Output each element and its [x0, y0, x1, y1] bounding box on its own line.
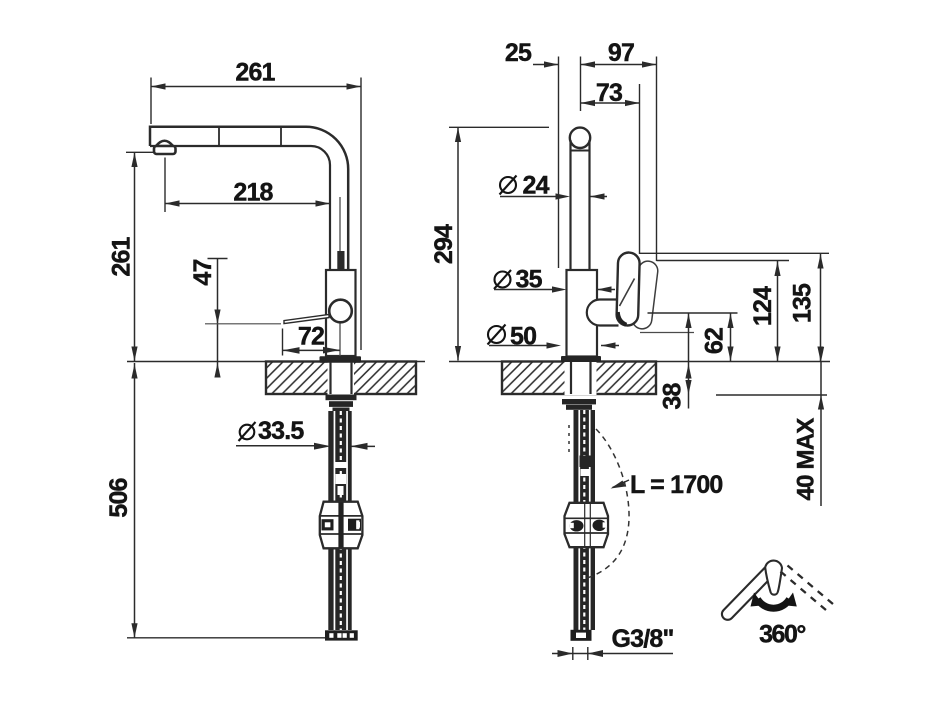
svg-text:73: 73 [596, 79, 622, 107]
svg-text:35: 35 [516, 266, 543, 294]
svg-text:72: 72 [298, 323, 324, 351]
svg-text:50: 50 [510, 323, 536, 351]
svg-text:97: 97 [608, 39, 634, 67]
svg-text:218: 218 [233, 179, 273, 207]
svg-text:33.5: 33.5 [258, 417, 304, 445]
svg-text:294: 294 [430, 224, 458, 264]
svg-text:261: 261 [108, 236, 136, 276]
svg-text:40 MAX: 40 MAX [793, 418, 820, 501]
svg-text:38: 38 [659, 383, 687, 410]
svg-text:360°: 360° [759, 621, 805, 649]
svg-text:135: 135 [789, 283, 817, 323]
svg-text:G3/8": G3/8" [612, 625, 674, 653]
svg-text:L = 1700: L = 1700 [630, 471, 723, 499]
svg-text:62: 62 [701, 328, 729, 354]
svg-text:25: 25 [505, 39, 532, 67]
svg-text:506: 506 [105, 478, 133, 517]
svg-text:261: 261 [235, 59, 275, 87]
svg-text:47: 47 [189, 259, 217, 285]
svg-text:24: 24 [523, 172, 550, 200]
svg-text:124: 124 [749, 286, 777, 326]
